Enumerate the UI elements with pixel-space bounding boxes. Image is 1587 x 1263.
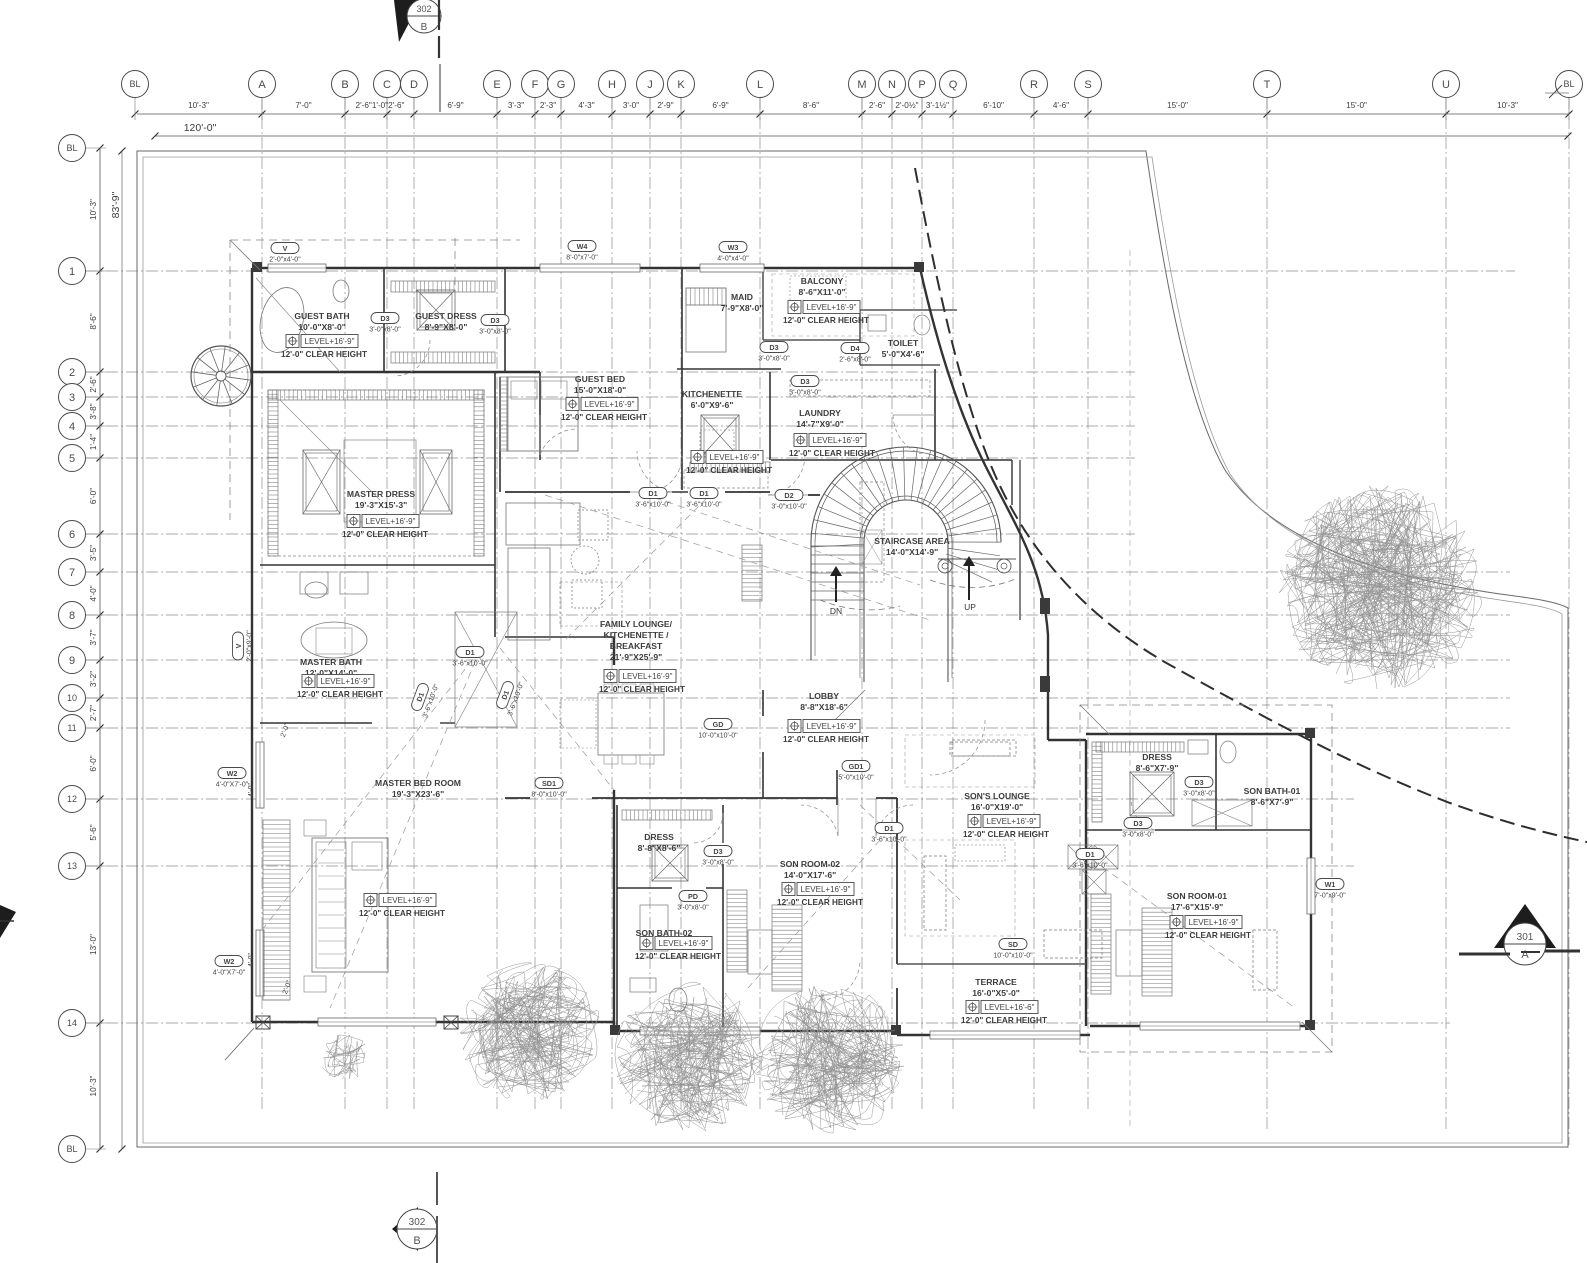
svg-text:LEVEL+16'-9": LEVEL+16'-9" [321, 677, 371, 686]
svg-text:BL: BL [1563, 79, 1574, 89]
svg-text:2'-6"1'-0"2'-6": 2'-6"1'-0"2'-6" [356, 101, 405, 110]
wall exterior bottom son rooms [614, 1031, 897, 1035]
svg-text:6'-10": 6'-10" [983, 101, 1004, 110]
room label LAUNDRY [789, 408, 875, 458]
svg-text:12'-0" CLEAR HEIGHT: 12'-0" CLEAR HEIGHT [1165, 931, 1251, 940]
svg-text:4'-0"X7'-0": 4'-0"X7'-0" [213, 970, 246, 977]
svg-text:4'-0": 4'-0" [248, 953, 255, 967]
tag D2 [771, 490, 807, 511]
wall exterior right [1086, 734, 1311, 1026]
furniture [254, 276, 1277, 1012]
svg-text:A: A [1521, 949, 1529, 961]
svg-text:D1: D1 [884, 824, 893, 833]
tag D1 [871, 823, 907, 844]
svg-text:3'-0"x8'-0": 3'-0"x8'-0" [1183, 791, 1215, 798]
svg-text:4'-0": 4'-0" [89, 585, 98, 601]
svg-text:LEVEL+16'-9": LEVEL+16'-9" [623, 672, 673, 681]
section marker 301-A right [1459, 904, 1580, 965]
edge marker left [0, 905, 16, 938]
svg-text:LAUNDRY: LAUNDRY [799, 408, 841, 418]
tag W2 [213, 956, 246, 977]
svg-text:M: M [857, 79, 866, 91]
svg-text:8'-9"X8'-0": 8'-9"X8'-0" [425, 322, 468, 332]
site boundary [137, 151, 1568, 1147]
svg-text:T: T [1264, 79, 1271, 91]
svg-text:SON ROOM-02: SON ROOM-02 [780, 859, 840, 869]
svg-text:7'-0": 7'-0" [295, 101, 311, 110]
svg-text:W2: W2 [224, 957, 235, 966]
svg-text:8'-6": 8'-6" [803, 101, 819, 110]
small rot dim d [282, 979, 294, 995]
wall lobby west [762, 690, 764, 798]
svg-text:3'-2": 3'-2" [89, 671, 98, 687]
svg-text:E: E [493, 79, 500, 91]
svg-text:B: B [413, 1235, 420, 1247]
svg-text:2'-9": 2'-9" [657, 101, 673, 110]
svg-text:Q: Q [949, 79, 958, 91]
svg-text:D3: D3 [1133, 819, 1142, 828]
wall exterior curved balcony-stair [920, 268, 1086, 1026]
svg-text:LOBBY: LOBBY [809, 691, 839, 701]
svg-text:7: 7 [69, 567, 75, 579]
tag D3 [369, 313, 401, 334]
svg-text:LEVEL+16'-9": LEVEL+16'-9" [807, 303, 857, 312]
room label TERRACE [961, 977, 1047, 1025]
grid lines [86, 97, 1569, 1145]
svg-text:12'-0" CLEAR HEIGHT: 12'-0" CLEAR HEIGHT [359, 909, 445, 918]
svg-text:12'-0" CLEAR HEIGHT: 12'-0" CLEAR HEIGHT [783, 735, 869, 744]
svg-text:J: J [647, 79, 653, 91]
svg-text:GUEST BED: GUEST BED [575, 374, 625, 384]
svg-text:4'-0": 4'-0" [248, 783, 255, 797]
svg-text:LEVEL+16'-9": LEVEL+16'-9" [585, 400, 635, 409]
wall guest bed south [500, 377, 820, 495]
svg-text:19'-3"X23'-6": 19'-3"X23'-6" [392, 789, 444, 799]
svg-text:P: P [918, 79, 925, 91]
svg-text:LEVEL+16'-9": LEVEL+16'-9" [1189, 918, 1239, 927]
svg-text:17'-6"X15'-9": 17'-6"X15'-9" [1171, 902, 1223, 912]
wall son block north [505, 797, 897, 799]
svg-text:GD1: GD1 [849, 762, 864, 771]
svg-text:10'-3": 10'-3" [188, 101, 209, 110]
svg-text:TOILET: TOILET [888, 338, 919, 348]
svg-text:3'-3": 3'-3" [508, 101, 524, 110]
svg-text:15'-0": 15'-0" [1346, 101, 1367, 110]
svg-text:12'-0" CLEAR HEIGHT: 12'-0" CLEAR HEIGHT [635, 952, 721, 961]
svg-text:H: H [608, 79, 616, 91]
svg-text:V: V [283, 244, 288, 253]
svg-text:21'-9"X25'-9": 21'-9"X25'-9" [610, 652, 662, 662]
svg-text:3'-6"x10'-0": 3'-6"x10'-0" [686, 502, 722, 509]
room label GUEST BED [561, 374, 647, 422]
tag W1 [1314, 879, 1346, 900]
svg-text:BL: BL [129, 79, 140, 89]
svg-text:D3: D3 [800, 377, 809, 386]
svg-text:K: K [677, 79, 685, 91]
room label SONS LOUNGE [963, 791, 1049, 839]
svg-text:BL: BL [66, 143, 77, 153]
door swings [394, 340, 1155, 1000]
svg-text:B: B [421, 22, 428, 33]
svg-text:DRESS: DRESS [644, 832, 674, 842]
svg-text:12'-0" CLEAR HEIGHT: 12'-0" CLEAR HEIGHT [599, 685, 685, 694]
svg-text:4'-0"X7'-0": 4'-0"X7'-0" [216, 782, 249, 789]
left dimension strip [86, 145, 126, 1153]
svg-text:6'-0": 6'-0" [89, 488, 98, 504]
tag D1 rotated a [409, 678, 441, 719]
room label MAID [721, 292, 764, 313]
room label BALCONY [783, 276, 869, 325]
spiral stair [191, 346, 251, 406]
svg-text:2'-6"x8'-0": 2'-6"x8'-0" [839, 357, 871, 364]
svg-text:5'-0"X4'-6": 5'-0"X4'-6" [882, 349, 925, 359]
svg-text:GUEST DRESS: GUEST DRESS [415, 311, 477, 321]
tag D1 [1072, 849, 1108, 870]
svg-text:BL: BL [66, 1144, 77, 1154]
wall stair area [837, 460, 1020, 805]
wall master bed right [613, 637, 615, 1022]
svg-text:10'-0"x10'-0": 10'-0"x10'-0" [698, 733, 738, 740]
svg-text:GUEST BATH: GUEST BATH [294, 311, 349, 321]
svg-text:4'-6": 4'-6" [1053, 101, 1069, 110]
tag SD1 [531, 778, 567, 799]
tag D3 [1183, 777, 1215, 798]
svg-text:5'-0"x10'-0": 5'-0"x10'-0" [838, 775, 874, 782]
svg-text:BALCONY: BALCONY [801, 276, 844, 286]
svg-text:D3: D3 [380, 314, 389, 323]
svg-text:14'-7"X9'-0": 14'-7"X9'-0" [796, 419, 844, 429]
svg-text:LEVEL+16'-9": LEVEL+16'-9" [305, 337, 355, 346]
svg-text:6: 6 [69, 529, 75, 541]
svg-text:1: 1 [69, 266, 75, 278]
svg-text:8'-6": 8'-6" [89, 313, 98, 329]
svg-text:7'-9"X8'-0": 7'-9"X8'-0" [721, 303, 764, 313]
svg-text:MASTER BATH: MASTER BATH [300, 657, 362, 667]
svg-text:3'-0"x8'-0": 3'-0"x8'-0" [479, 329, 511, 336]
svg-text:8'-8"X8'-6": 8'-8"X8'-6" [638, 843, 681, 853]
svg-text:2'-6": 2'-6" [869, 101, 885, 110]
svg-text:11: 11 [67, 723, 76, 733]
svg-text:15'-0"X18'-0": 15'-0"X18'-0" [574, 385, 626, 395]
room label MASTER BATH [297, 657, 383, 699]
svg-text:8'-0"x10'-0": 8'-0"x10'-0" [531, 792, 567, 799]
room label GUEST DRESS [415, 311, 477, 332]
sight lines dashed [262, 495, 1295, 1008]
svg-text:SD: SD [1008, 940, 1018, 949]
svg-text:F: F [532, 79, 539, 91]
tag D1 [452, 647, 488, 668]
svg-text:302: 302 [416, 4, 431, 14]
svg-text:3'-5": 3'-5" [89, 545, 98, 561]
svg-text:4'-0"x4'-0": 4'-0"x4'-0" [717, 256, 749, 263]
svg-text:5: 5 [69, 453, 75, 465]
svg-text:83'-9": 83'-9" [110, 191, 122, 218]
wall balcony [763, 268, 860, 340]
svg-text:DN: DN [830, 606, 842, 616]
svg-text:C: C [383, 79, 391, 91]
svg-text:LEVEL+16'-9": LEVEL+16'-9" [659, 939, 709, 948]
svg-text:12'-0" CLEAR HEIGHT: 12'-0" CLEAR HEIGHT [777, 898, 863, 907]
svg-text:14'-0"X14'-9": 14'-0"X14'-9" [886, 547, 938, 557]
svg-text:6'-9": 6'-9" [712, 101, 728, 110]
svg-text:V: V [234, 643, 243, 648]
svg-text:3'-0"x10'-0": 3'-0"x10'-0" [771, 504, 807, 511]
svg-text:3'-6"x10'-0": 3'-6"x10'-0" [635, 502, 671, 509]
wall dress right block [1086, 734, 1311, 830]
svg-text:LEVEL+16'-9": LEVEL+16'-9" [801, 885, 851, 894]
svg-text:3'-0"x8'-0": 3'-0"x8'-0" [758, 356, 790, 363]
svg-text:13'-0": 13'-0" [89, 934, 98, 955]
svg-text:16'-0"X5'-0": 16'-0"X5'-0" [972, 988, 1020, 998]
svg-text:S: S [1084, 79, 1091, 91]
room label GUEST BATH [281, 311, 367, 359]
wall master bath south [260, 722, 455, 724]
wall exterior bottom terrace [897, 1026, 1311, 1035]
svg-text:3: 3 [69, 392, 75, 404]
svg-text:3'-0"x8'-0": 3'-0"x8'-0" [369, 327, 401, 334]
wall dress-sonbath02 [617, 805, 723, 1031]
tag GD1 [838, 761, 874, 782]
room label SON ROOM-01 [1165, 891, 1251, 940]
svg-text:SON BATH-01: SON BATH-01 [1244, 786, 1301, 796]
svg-text:STAIRCASE AREA: STAIRCASE AREA [874, 536, 949, 546]
room label MASTER DRESS [342, 489, 428, 539]
svg-text:8'-0"x7'-0": 8'-0"x7'-0" [566, 255, 598, 262]
svg-text:14: 14 [67, 1018, 77, 1028]
svg-text:B: B [341, 79, 348, 91]
wall exterior left [251, 268, 253, 1022]
small rot dim a [248, 783, 255, 797]
svg-text:16'-0"X19'-0": 16'-0"X19'-0" [971, 802, 1023, 812]
svg-text:3'-6"x10'-0": 3'-6"x10'-0" [871, 837, 907, 844]
left grid bubbles [59, 135, 86, 1163]
svg-text:LEVEL+16'-9": LEVEL+16'-9" [383, 896, 433, 905]
room label TOILET [882, 338, 925, 359]
tag D4 [839, 343, 871, 364]
svg-text:12'-0" CLEAR HEIGHT: 12'-0" CLEAR HEIGHT [783, 316, 869, 325]
tag D3 [702, 846, 734, 867]
svg-text:10'-3": 10'-3" [1497, 101, 1518, 110]
svg-text:9: 9 [69, 655, 75, 667]
small rot dim b [248, 953, 255, 967]
svg-text:8'-8"X18'-6": 8'-8"X18'-6" [800, 702, 848, 712]
svg-text:3'-0"x8'-0": 3'-0"x8'-0" [1122, 832, 1154, 839]
room label SON BATH-01 [1244, 786, 1301, 807]
svg-text:D1: D1 [699, 489, 708, 498]
tag W4 [566, 241, 598, 262]
tree bottom 1 [460, 963, 599, 1099]
staircase fan [811, 447, 1018, 682]
svg-text:120'-0": 120'-0" [184, 122, 217, 134]
svg-text:10'-0"x10'-0": 10'-0"x10'-0" [993, 953, 1033, 960]
svg-text:D2: D2 [784, 491, 793, 500]
svg-text:SON'S LOUNGE: SON'S LOUNGE [964, 791, 1030, 801]
svg-text:2'-7": 2'-7" [89, 705, 98, 721]
wall corner columns [225, 262, 1315, 1060]
svg-text:3'-0": 3'-0" [623, 101, 639, 110]
svg-text:1'-4": 1'-4" [89, 434, 98, 450]
svg-text:14'-0"X17'-6": 14'-0"X17'-6" [784, 870, 836, 880]
svg-text:12: 12 [67, 794, 77, 804]
svg-text:LEVEL+16'-9": LEVEL+16'-9" [813, 436, 863, 445]
wall exterior bottom master bed [252, 1022, 614, 1031]
tree large right [1279, 486, 1482, 689]
svg-text:4: 4 [69, 421, 75, 433]
svg-text:19'-3"X15'-3": 19'-3"X15'-3" [355, 500, 407, 510]
tag D3 [479, 315, 511, 336]
svg-text:MAID: MAID [731, 292, 753, 302]
svg-text:5'-6": 5'-6" [89, 824, 98, 840]
svg-text:W2: W2 [227, 769, 238, 778]
svg-text:3'-6"x10'-0": 3'-6"x10'-0" [1072, 863, 1108, 870]
windows [256, 264, 1315, 1039]
svg-text:L: L [757, 79, 763, 91]
wall exterior top [252, 267, 920, 269]
property line dashed curve [915, 168, 1587, 845]
svg-text:12'-0" CLEAR HEIGHT: 12'-0" CLEAR HEIGHT [961, 1016, 1047, 1025]
svg-text:2'-0½": 2'-0½" [895, 101, 918, 110]
svg-text:10'-3": 10'-3" [89, 1075, 98, 1096]
stair arrows UP DN [830, 556, 976, 616]
svg-text:D1: D1 [1085, 850, 1094, 859]
wall terrace rail [897, 963, 1086, 965]
tag W2 [216, 768, 249, 789]
svg-text:12'-0" CLEAR HEIGHT: 12'-0" CLEAR HEIGHT [561, 413, 647, 422]
tag W3 [717, 242, 749, 263]
svg-text:LEVEL+16'-6": LEVEL+16'-6" [985, 1003, 1035, 1012]
small rot dim c [280, 722, 292, 738]
svg-text:LEVEL+16'-9": LEVEL+16'-9" [366, 517, 416, 526]
tag V rotated [233, 630, 254, 662]
room label STAIRCASE AREA [874, 536, 949, 557]
tree bottom 3 [750, 986, 904, 1133]
svg-text:FAMILY LOUNGE/: FAMILY LOUNGE/ [600, 619, 673, 629]
wall toilet [860, 310, 957, 365]
wall maid-kitchenette [677, 268, 781, 490]
tag D3 [758, 342, 790, 363]
svg-text:10: 10 [67, 693, 77, 703]
svg-text:SON ROOM-01: SON ROOM-01 [1167, 891, 1227, 901]
svg-text:D3: D3 [713, 847, 722, 856]
svg-text:D3: D3 [490, 316, 499, 325]
tree bottom 2 [615, 982, 763, 1131]
svg-text:12'-0" CLEAR HEIGHT: 12'-0" CLEAR HEIGHT [342, 530, 428, 539]
svg-text:3'-7": 3'-7" [89, 629, 98, 645]
svg-text:UP: UP [964, 602, 976, 612]
svg-text:LEVEL+16'-9": LEVEL+16'-9" [710, 453, 760, 462]
room label FAMILY LOUNGE [599, 619, 685, 694]
svg-text:15'-0": 15'-0" [1167, 101, 1188, 110]
svg-text:10'-0"X8'-0": 10'-0"X8'-0" [298, 322, 346, 332]
svg-text:4'-3": 4'-3" [578, 101, 594, 110]
svg-text:W4: W4 [577, 242, 588, 251]
svg-text:10'-3": 10'-3" [89, 199, 98, 220]
tag GD [698, 719, 738, 740]
wall guest bath-dress [252, 268, 540, 460]
top dimension strip [132, 97, 1573, 140]
svg-text:GD: GD [713, 720, 724, 729]
wall master dress [260, 372, 614, 637]
svg-text:6'-0": 6'-0" [89, 755, 98, 771]
svg-text:3'-6"x10'-0": 3'-6"x10'-0" [452, 661, 488, 668]
svg-text:2'-3": 2'-3" [540, 101, 556, 110]
svg-text:12'-0" CLEAR HEIGHT: 12'-0" CLEAR HEIGHT [963, 830, 1049, 839]
tag V [269, 243, 301, 264]
section marker 302-B bottom [392, 1172, 437, 1263]
svg-text:D1: D1 [465, 648, 474, 657]
room label DRESS right [1136, 752, 1179, 773]
svg-text:U: U [1442, 79, 1450, 91]
svg-text:2'-0"x4'-0": 2'-0"x4'-0" [269, 257, 301, 264]
svg-text:MASTER DRESS: MASTER DRESS [347, 489, 416, 499]
svg-text:3'-8": 3'-8" [89, 403, 98, 419]
tag D1 [635, 488, 671, 509]
room label SON ROOM-02 [777, 859, 863, 907]
tag D1 rotated b [494, 676, 526, 717]
svg-text:6'-9": 6'-9" [447, 101, 463, 110]
room label SON BATH-02 [635, 928, 721, 961]
svg-text:KITCHENETTE: KITCHENETTE [682, 389, 742, 399]
room label MASTER BED ROOM [359, 778, 461, 918]
svg-text:A: A [258, 79, 266, 91]
room label DRESS left [638, 832, 681, 853]
svg-text:TERRACE: TERRACE [975, 977, 1017, 987]
svg-text:LEVEL+16'-9": LEVEL+16'-9" [807, 722, 857, 731]
svg-text:12'-0" CLEAR HEIGHT: 12'-0" CLEAR HEIGHT [297, 690, 383, 699]
room label KITCHENETTE [682, 389, 772, 475]
svg-text:D3: D3 [769, 343, 778, 352]
room label LOBBY [783, 691, 869, 744]
svg-text:2: 2 [69, 367, 75, 379]
svg-text:2'-6": 2'-6" [89, 376, 98, 392]
svg-text:D3: D3 [1194, 778, 1203, 787]
wall son room-02 east [896, 798, 898, 1031]
svg-text:301: 301 [1517, 932, 1534, 943]
svg-text:MASTER BED ROOM: MASTER BED ROOM [375, 778, 461, 788]
tag SD [993, 939, 1033, 960]
tag D1 [686, 488, 722, 509]
section marker 302-B top [394, 0, 441, 112]
svg-text:W1: W1 [1325, 880, 1336, 889]
svg-text:KITCHENETTE /: KITCHENETTE / [604, 630, 670, 640]
svg-text:8'-6"X7'-9": 8'-6"X7'-9" [1136, 763, 1179, 773]
tag D3 [1122, 818, 1154, 839]
svg-text:8'-6"X7'-9": 8'-6"X7'-9" [1251, 797, 1294, 807]
svg-text:3'-0"x8'-0": 3'-0"x8'-0" [789, 390, 821, 397]
svg-text:12'-0" CLEAR HEIGHT: 12'-0" CLEAR HEIGHT [789, 449, 875, 458]
svg-text:3'-1½": 3'-1½" [926, 101, 949, 110]
svg-text:D: D [410, 79, 418, 91]
svg-text:13: 13 [67, 861, 77, 871]
svg-text:G: G [557, 79, 566, 91]
svg-text:12'-0" CLEAR HEIGHT: 12'-0" CLEAR HEIGHT [686, 466, 772, 475]
svg-text:3'-0"x8'-0": 3'-0"x8'-0" [677, 905, 709, 912]
svg-text:8'-6"X11'-0": 8'-6"X11'-0" [798, 287, 845, 297]
svg-text:PD: PD [688, 892, 698, 901]
svg-text:BREAKFAST: BREAKFAST [610, 641, 663, 651]
top grid bubbles [122, 71, 1583, 98]
shrub left small [322, 1035, 365, 1079]
svg-text:302: 302 [409, 1217, 426, 1228]
svg-text:6'-0"X9'-6": 6'-0"X9'-6" [691, 400, 734, 410]
svg-text:12'-0" CLEAR HEIGHT: 12'-0" CLEAR HEIGHT [281, 350, 367, 359]
corner tick top right [1545, 85, 1569, 98]
tag PD [677, 891, 709, 912]
tag D3 [789, 376, 821, 397]
extra casework [560, 274, 1035, 936]
svg-text:R: R [1030, 79, 1038, 91]
svg-text:8: 8 [69, 610, 75, 622]
